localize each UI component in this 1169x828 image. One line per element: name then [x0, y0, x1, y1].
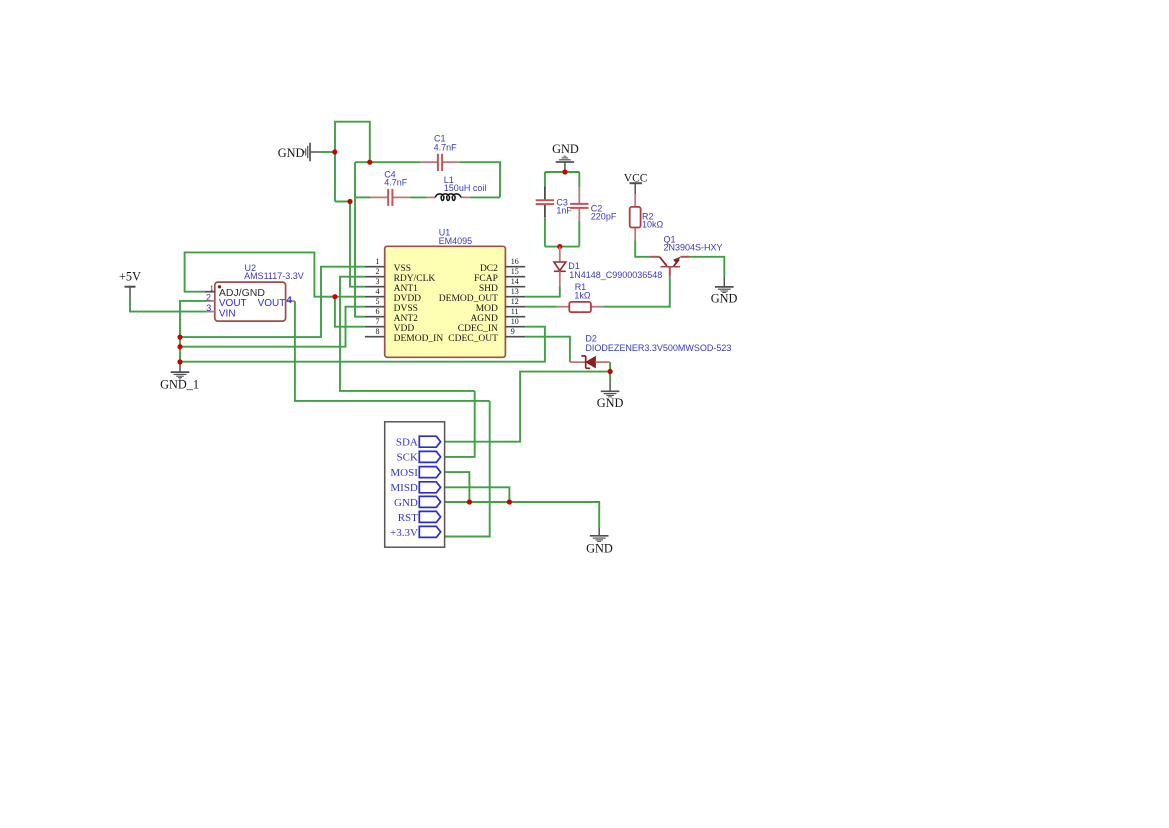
- svg-text:GND: GND: [597, 396, 624, 410]
- wire D2 cathode corner down to GND node: [609, 362, 611, 382]
- svg-text:GND_1: GND_1: [160, 378, 199, 392]
- svg-text:2N3904S-HXY: 2N3904S-HXY: [664, 242, 723, 252]
- wire MISD down to GND row: [441, 487, 510, 502]
- svg-text:EM4095: EM4095: [439, 236, 473, 246]
- svg-text:+5V: +5V: [119, 270, 141, 284]
- wire from loop to ANT1 (pin 3): [335, 202, 365, 287]
- svg-text:2: 2: [206, 292, 211, 302]
- svg-text:13: 13: [511, 287, 519, 296]
- wire C2 branch verticals: [578, 172, 580, 187]
- svg-text:MOSI: MOSI: [390, 467, 418, 479]
- svg-text:ADJ/GND: ADJ/GND: [219, 287, 266, 299]
- ground GND (connector): [590, 528, 609, 541]
- svg-text:ANT1: ANT1: [394, 284, 419, 294]
- svg-text:1nF: 1nF: [556, 206, 572, 216]
- wire U2 VOUT pin4 down to +3.3V connector pin: [295, 301, 490, 401]
- resistor R2: [630, 194, 641, 241]
- svg-text:3: 3: [376, 277, 380, 286]
- U2 pin 1 stub: [205, 291, 215, 293]
- svg-text:1N4148_C9900036548: 1N4148_C9900036548: [569, 270, 662, 280]
- svg-text:SHD: SHD: [479, 284, 498, 294]
- svg-text:VIN: VIN: [219, 308, 236, 319]
- svg-text:DVSS: DVSS: [394, 304, 418, 314]
- junction D2 cathode / SDA / GND: [608, 369, 613, 374]
- wire C3/C2 bottom horizontal: [545, 246, 579, 248]
- wire CDEC_OUT (pin 9) to D2 anode: [525, 337, 570, 362]
- svg-text:11: 11: [511, 307, 519, 316]
- junction GND_1 rail dots: [177, 335, 182, 340]
- wire DEMOD_OUT (pin 13) to D1 cathode: [525, 286, 560, 297]
- junction loop corner / ANT1 branch: [347, 199, 352, 204]
- connector pin arrow +3.3V: [419, 526, 440, 537]
- junction DVDD/VDD: [332, 294, 337, 299]
- svg-text:+3.3V: +3.3V: [390, 527, 418, 539]
- connector pin arrow GND: [419, 496, 440, 507]
- ground GND (at Q1 emitter): [715, 277, 734, 293]
- wire R2 bottom to Q1 base: [635, 241, 650, 257]
- svg-text:8: 8: [376, 327, 380, 336]
- svg-text:12: 12: [511, 297, 519, 306]
- U2 pin 4 stub: [286, 300, 295, 302]
- svg-text:10kΩ: 10kΩ: [642, 219, 664, 229]
- junction top loop / C1 wire: [367, 160, 372, 165]
- svg-text:RST: RST: [398, 512, 418, 524]
- U2 pin 3 stub: [207, 311, 215, 313]
- svg-text:GND: GND: [278, 146, 305, 160]
- wire DVDD (pin 4) to U2 ADJ/GND: [185, 252, 365, 296]
- svg-text:1kΩ: 1kΩ: [574, 291, 591, 301]
- svg-text:ANT2: ANT2: [394, 314, 419, 324]
- svg-text:AGND: AGND: [470, 314, 498, 324]
- svg-text:220pF: 220pF: [591, 211, 617, 221]
- wire top loop left vertical and top: [335, 122, 370, 202]
- wire DVSS (pin 5) to GND_1 rail: [180, 307, 365, 347]
- ground GND (below D2): [601, 382, 620, 397]
- ground GND (left, rotated): [304, 143, 320, 161]
- svg-text:FCAP: FCAP: [474, 274, 498, 284]
- wire to ANT2 (pin 6): [355, 162, 365, 317]
- svg-text:16: 16: [511, 257, 519, 266]
- junction top-loop GND tee: [332, 149, 337, 154]
- junction C3/C2 bottom / D1: [557, 244, 562, 249]
- svg-text:RDY/CLK: RDY/CLK: [394, 274, 436, 284]
- wire U2 VOUT pin2 to GND_1 vertical rail: [180, 301, 207, 362]
- svg-text:3: 3: [206, 303, 211, 313]
- svg-text:DEMOD_IN: DEMOD_IN: [394, 334, 444, 344]
- wire C1 net upper horizontal left segment: [355, 161, 420, 163]
- svg-text:CDEC_IN: CDEC_IN: [458, 324, 498, 334]
- wire C3/C2 top horizontal: [545, 171, 579, 173]
- svg-text:4: 4: [287, 295, 293, 306]
- svg-text:150uH coil: 150uH coil: [444, 183, 487, 193]
- svg-text:5: 5: [376, 297, 380, 306]
- wire GND row to GND symbol: [441, 502, 600, 528]
- svg-text:VCC: VCC: [624, 173, 648, 185]
- U1 right pin stubs 16-9: [505, 267, 525, 337]
- regulator U2 AMS1117-3.3V body: [215, 282, 286, 321]
- wire SCK: [441, 391, 475, 457]
- wire GND tee to top loop: [320, 151, 335, 153]
- svg-text:4: 4: [376, 287, 380, 296]
- resistor R1: [557, 302, 604, 312]
- wire SDA to D2/GND node: [441, 372, 611, 442]
- capacitor C2: [570, 187, 588, 221]
- wire C1 net upper horizontal right segment and right vertical: [460, 162, 500, 197]
- svg-text:D2: D2: [585, 334, 597, 344]
- power VCC: [630, 183, 643, 194]
- svg-text:GND: GND: [586, 541, 613, 555]
- svg-text:MISD: MISD: [390, 482, 418, 494]
- wire R1 right to Q1 lower lead: [604, 277, 670, 307]
- inductor L1: [427, 194, 471, 201]
- svg-text:DIODEZENER3.3V500MWSOD-523: DIODEZENER3.3V500MWSOD-523: [585, 343, 731, 353]
- svg-text:MOD: MOD: [476, 304, 498, 314]
- U2 pin-1 marker dot: [218, 285, 221, 288]
- svg-text:VSS: VSS: [394, 264, 411, 274]
- svg-text:GND: GND: [394, 497, 418, 509]
- svg-text:4.7nF: 4.7nF: [434, 142, 458, 152]
- wire Q1 emitter to GND: [690, 257, 725, 277]
- junction MISD/GND: [507, 499, 512, 504]
- wire C4/L1 lower horizontal segments: [355, 196, 370, 198]
- U1 pin names right: [439, 264, 498, 344]
- diode D2 zener DIODEZENER3.3V: [570, 356, 610, 368]
- op-amp U1 EM4095 body: [385, 246, 506, 357]
- svg-text:DVDD: DVDD: [394, 294, 422, 304]
- U2 pin 2 stub: [207, 300, 215, 302]
- wire DVDD junction down to VDD (pin 7): [335, 297, 365, 327]
- U1 left pin stubs 1-8: [365, 267, 385, 337]
- U1 pin numbers left: [376, 257, 380, 336]
- capacitor C3: [536, 186, 554, 217]
- wire +3.3V up to VOUT net: [441, 401, 490, 537]
- svg-text:1: 1: [376, 257, 380, 266]
- connector pin arrow SCK: [419, 451, 440, 462]
- svg-text:9: 9: [511, 327, 515, 336]
- svg-text:6: 6: [376, 307, 380, 316]
- svg-text:4.7nF: 4.7nF: [384, 177, 408, 187]
- capacitor C1: [420, 154, 460, 171]
- junction MOSI/GND: [467, 499, 472, 504]
- wire GND_1 rail to CDEC_IN (pin 10): [180, 327, 545, 362]
- connector pin arrow SDA: [419, 436, 440, 447]
- svg-text:10: 10: [511, 317, 519, 326]
- U1 pin names left: [394, 264, 444, 344]
- capacitor C4: [370, 189, 410, 206]
- wire +5V to U2 VIN (pin 3): [130, 297, 207, 312]
- wire MOD (pin 12) to R1 left: [525, 306, 557, 308]
- wire C3 branch verticals: [544, 172, 546, 186]
- svg-text:VOUT: VOUT: [258, 298, 286, 309]
- power +5V: [125, 287, 136, 297]
- svg-text:2: 2: [376, 267, 380, 276]
- svg-text:14: 14: [511, 277, 519, 286]
- connector pin arrow MISD: [419, 482, 440, 493]
- diode D1 1N4148: [554, 247, 566, 287]
- svg-text:AMS1117-3.3V: AMS1117-3.3V: [244, 271, 304, 281]
- junction C3/C2 top: [562, 169, 567, 174]
- transistor Q1 2N3904: [650, 257, 689, 277]
- svg-text:SCK: SCK: [396, 452, 417, 464]
- U1 pin numbers right: [511, 257, 519, 336]
- ground GND_1: [171, 362, 190, 379]
- connector J1 body: [385, 422, 445, 547]
- svg-text:SDA: SDA: [396, 437, 418, 449]
- connector pin arrow RST: [419, 511, 440, 522]
- svg-text:GND: GND: [552, 142, 579, 156]
- svg-text:7: 7: [376, 317, 380, 326]
- ground GND (above C3/C2, flipped): [556, 156, 574, 171]
- wire VSS (pin 1) to GND_1 rail: [180, 267, 365, 337]
- svg-text:DEMOD_OUT: DEMOD_OUT: [439, 294, 498, 304]
- svg-text:DC2: DC2: [480, 264, 498, 274]
- wire RDY/CLK (pin 2) down to SCK: [340, 277, 475, 391]
- svg-text:GND: GND: [711, 291, 738, 305]
- svg-text:VDD: VDD: [394, 324, 415, 334]
- wire MOSI down to GND row: [441, 472, 470, 502]
- svg-text:15: 15: [511, 267, 519, 276]
- connector pin arrow MOSI: [419, 467, 440, 478]
- svg-text:CDEC_OUT: CDEC_OUT: [448, 334, 498, 344]
